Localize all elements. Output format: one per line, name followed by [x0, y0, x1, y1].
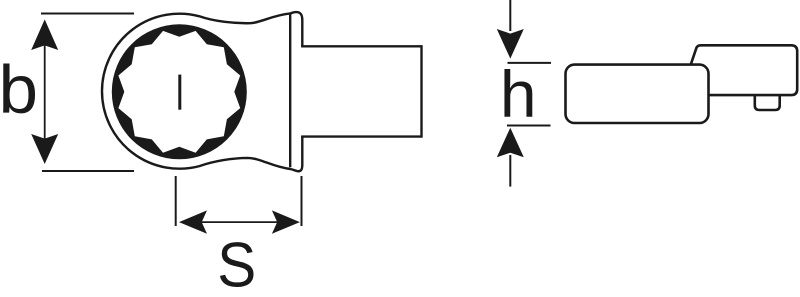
svg-text:h: h — [500, 57, 537, 131]
svg-text:S: S — [217, 229, 256, 297]
svg-text:b: b — [0, 51, 38, 127]
